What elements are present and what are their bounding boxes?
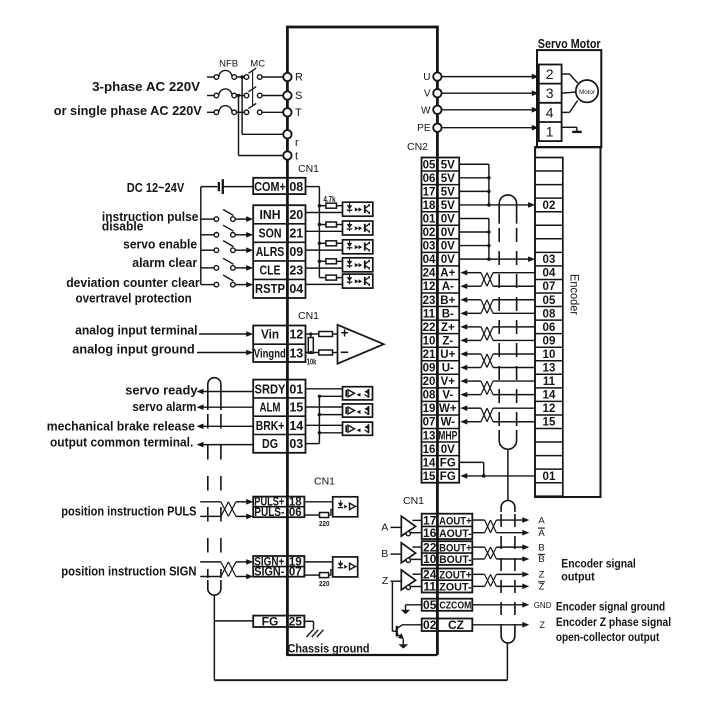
svg-text:12: 12 xyxy=(423,281,436,293)
svg-text:4: 4 xyxy=(546,104,554,120)
svg-text:B-: B- xyxy=(442,308,454,320)
svg-text:r: r xyxy=(295,137,299,149)
svg-text:09: 09 xyxy=(289,245,303,259)
svg-text:SIGN-: SIGN- xyxy=(254,567,284,579)
svg-text:Z-: Z- xyxy=(442,335,453,347)
svg-text:0V: 0V xyxy=(441,227,455,239)
svg-text:output common terminal.: output common terminal. xyxy=(50,435,193,450)
svg-text:15: 15 xyxy=(289,401,303,415)
svg-text:Encoder signal: Encoder signal xyxy=(561,558,636,570)
svg-text:11: 11 xyxy=(423,308,436,320)
svg-text:CN1: CN1 xyxy=(314,476,335,488)
svg-text:servo enable: servo enable xyxy=(123,237,197,252)
svg-text:24: 24 xyxy=(423,268,436,280)
svg-text:ZOUT+: ZOUT+ xyxy=(439,570,472,582)
svg-text:FG: FG xyxy=(440,471,456,483)
svg-text:5V: 5V xyxy=(441,159,455,171)
svg-text:12: 12 xyxy=(543,403,556,415)
svg-text:5V: 5V xyxy=(441,200,455,212)
svg-text:09: 09 xyxy=(423,363,436,375)
svg-text:CN1: CN1 xyxy=(403,495,424,507)
svg-text:220: 220 xyxy=(319,579,330,588)
svg-text:B: B xyxy=(381,548,388,560)
svg-text:06: 06 xyxy=(423,173,436,185)
svg-text:05: 05 xyxy=(543,295,556,307)
svg-text:NFB: NFB xyxy=(219,59,238,70)
svg-text:Z: Z xyxy=(539,582,545,593)
svg-text:01: 01 xyxy=(423,213,436,225)
svg-text:CLE: CLE xyxy=(260,264,281,278)
svg-text:FG: FG xyxy=(262,615,279,629)
svg-text:16: 16 xyxy=(423,444,436,456)
svg-text:U-: U- xyxy=(442,363,454,375)
svg-text:15: 15 xyxy=(543,417,556,429)
svg-text:B: B xyxy=(538,554,544,565)
svg-text:ALM: ALM xyxy=(260,401,281,415)
svg-text:03: 03 xyxy=(289,437,303,451)
svg-text:CN1: CN1 xyxy=(298,310,319,322)
svg-text:0V: 0V xyxy=(441,213,455,225)
svg-text:alarm clear: alarm clear xyxy=(132,255,197,270)
svg-text:COM+: COM+ xyxy=(254,180,286,194)
svg-text:25: 25 xyxy=(289,615,303,629)
svg-text:PULS-: PULS- xyxy=(254,507,284,519)
svg-text:position instruction SIGN: position instruction SIGN xyxy=(61,564,196,579)
svg-text:03: 03 xyxy=(423,241,436,253)
svg-text:01: 01 xyxy=(543,471,556,483)
svg-text:17: 17 xyxy=(423,186,436,198)
svg-text:Z: Z xyxy=(540,620,546,630)
svg-text:AOUT-: AOUT- xyxy=(439,528,472,540)
svg-text:23: 23 xyxy=(423,295,436,307)
svg-text:08: 08 xyxy=(289,180,303,194)
svg-text:Vin: Vin xyxy=(261,328,279,342)
svg-text:20: 20 xyxy=(423,376,436,388)
svg-text:W+: W+ xyxy=(439,403,457,415)
svg-text:5V: 5V xyxy=(441,173,455,185)
svg-text:A: A xyxy=(538,515,545,526)
svg-text:19: 19 xyxy=(423,403,436,415)
svg-text:07: 07 xyxy=(423,417,436,429)
svg-text:Encoder Z phase signal: Encoder Z phase signal xyxy=(556,617,671,629)
svg-text:INH: INH xyxy=(260,208,281,222)
svg-text:W: W xyxy=(421,105,431,116)
svg-text:10: 10 xyxy=(543,349,556,361)
svg-text:A+: A+ xyxy=(440,268,455,280)
svg-text:t: t xyxy=(295,151,298,163)
svg-text:analog input terminal: analog input terminal xyxy=(75,323,197,338)
svg-text:21: 21 xyxy=(289,227,303,241)
svg-text:servo alarm: servo alarm xyxy=(132,399,196,414)
svg-text:SON: SON xyxy=(259,227,282,241)
svg-text:AOUT+: AOUT+ xyxy=(439,515,472,527)
svg-text:09: 09 xyxy=(543,335,556,347)
svg-text:06: 06 xyxy=(289,507,302,519)
svg-text:20: 20 xyxy=(289,208,303,222)
svg-text:07: 07 xyxy=(543,281,556,293)
svg-text:05: 05 xyxy=(423,598,437,612)
svg-text:02: 02 xyxy=(423,618,437,632)
svg-text:3-phase AC 220V: 3-phase AC 220V xyxy=(92,79,200,94)
svg-text:S: S xyxy=(295,90,302,102)
svg-text:10k: 10k xyxy=(307,357,317,366)
svg-text:02: 02 xyxy=(543,200,556,212)
svg-text:Z+: Z+ xyxy=(441,322,455,334)
svg-text:21: 21 xyxy=(423,349,436,361)
svg-text:ZOUT-: ZOUT- xyxy=(439,582,472,594)
svg-text:04: 04 xyxy=(423,254,436,266)
svg-text:GND: GND xyxy=(534,601,552,610)
svg-text:3: 3 xyxy=(546,85,554,101)
svg-text:Encoder signal ground: Encoder signal ground xyxy=(556,602,665,614)
svg-text:A: A xyxy=(538,528,545,539)
svg-text:16: 16 xyxy=(423,526,437,540)
svg-text:servo ready: servo ready xyxy=(125,382,198,397)
svg-text:220: 220 xyxy=(319,519,330,528)
svg-text:deviation counter clear: deviation counter clear xyxy=(66,275,200,290)
svg-text:A-: A- xyxy=(442,281,454,293)
svg-text:MC: MC xyxy=(250,59,265,70)
svg-text:13: 13 xyxy=(289,347,303,361)
svg-text:open-collector output: open-collector output xyxy=(556,632,660,644)
svg-text:CZCOM: CZCOM xyxy=(439,600,471,612)
svg-text:overtravel protection: overtravel protection xyxy=(76,290,192,305)
svg-text:mechanical brake release: mechanical brake release xyxy=(47,418,195,433)
svg-text:14: 14 xyxy=(543,390,556,402)
svg-text:4.7k: 4.7k xyxy=(324,195,336,204)
svg-text:RSTP: RSTP xyxy=(255,282,285,296)
svg-text:0V: 0V xyxy=(441,241,455,253)
svg-text:analog input ground: analog input ground xyxy=(72,342,194,357)
svg-text:R: R xyxy=(295,72,303,84)
svg-text:CZ: CZ xyxy=(448,618,464,632)
svg-text:MHP: MHP xyxy=(438,430,457,442)
svg-text:13: 13 xyxy=(543,363,556,375)
svg-text:output: output xyxy=(561,572,595,584)
svg-text:01: 01 xyxy=(289,382,303,396)
svg-text:11: 11 xyxy=(423,580,436,594)
svg-text:5V: 5V xyxy=(441,186,455,198)
svg-text:1: 1 xyxy=(546,124,554,140)
svg-text:disable: disable xyxy=(102,218,143,233)
svg-text:Chassis ground: Chassis ground xyxy=(288,642,370,656)
svg-text:07: 07 xyxy=(289,567,302,579)
svg-text:14: 14 xyxy=(423,457,436,469)
svg-text:or single phase AC 220V: or single phase AC 220V xyxy=(54,103,202,118)
svg-text:10: 10 xyxy=(423,335,436,347)
svg-text:V-: V- xyxy=(442,390,453,402)
svg-text:CN2: CN2 xyxy=(407,141,428,153)
svg-text:PE: PE xyxy=(417,123,431,134)
svg-text:2: 2 xyxy=(546,66,554,82)
svg-text:SRDY: SRDY xyxy=(255,382,287,396)
svg-text:05: 05 xyxy=(423,159,436,171)
svg-text:Motor: Motor xyxy=(579,89,596,96)
svg-text:U: U xyxy=(423,72,430,83)
svg-text:BRK+: BRK+ xyxy=(256,419,285,433)
svg-text:V: V xyxy=(424,89,431,100)
svg-text:W-: W- xyxy=(441,417,456,429)
svg-text:14: 14 xyxy=(289,419,303,433)
svg-text:Servo Motor: Servo Motor xyxy=(538,37,601,51)
svg-text:B+: B+ xyxy=(440,295,455,307)
svg-text:15: 15 xyxy=(423,471,436,483)
svg-text:18: 18 xyxy=(423,200,436,212)
svg-text:11: 11 xyxy=(543,376,556,388)
svg-text:B: B xyxy=(538,542,544,553)
svg-text:A: A xyxy=(381,521,388,533)
svg-text:ALRS: ALRS xyxy=(256,245,285,259)
svg-text:12: 12 xyxy=(289,328,303,342)
svg-text:T: T xyxy=(295,107,302,119)
svg-text:U+: U+ xyxy=(440,349,455,361)
svg-text:08: 08 xyxy=(543,308,556,320)
svg-text:08: 08 xyxy=(423,390,436,402)
svg-text:22: 22 xyxy=(423,322,436,334)
svg-text:23: 23 xyxy=(289,264,303,278)
svg-text:04: 04 xyxy=(289,282,303,296)
svg-text:0V: 0V xyxy=(441,254,455,266)
svg-text:0V: 0V xyxy=(441,444,455,456)
svg-text:06: 06 xyxy=(543,322,556,334)
svg-text:V+: V+ xyxy=(441,376,456,388)
svg-text:Encoder: Encoder xyxy=(568,274,580,315)
svg-text:+: + xyxy=(341,325,349,340)
svg-text:DC 12~24V: DC 12~24V xyxy=(127,180,185,195)
svg-text:13: 13 xyxy=(423,430,436,442)
svg-text:04: 04 xyxy=(543,268,556,280)
svg-text:Z: Z xyxy=(382,575,389,587)
svg-text:Vingnd: Vingnd xyxy=(254,349,286,361)
svg-text:BOUT+: BOUT+ xyxy=(439,542,472,554)
svg-text:DG: DG xyxy=(262,437,278,451)
svg-text:03: 03 xyxy=(543,254,556,266)
svg-text:Z: Z xyxy=(539,570,545,581)
svg-text:CN1: CN1 xyxy=(298,163,319,175)
svg-text:02: 02 xyxy=(423,227,436,239)
svg-text:FG: FG xyxy=(440,457,456,469)
svg-text:position instruction PULS: position instruction PULS xyxy=(61,504,196,519)
svg-text:10: 10 xyxy=(423,552,437,566)
svg-text:BOUT-: BOUT- xyxy=(439,554,472,566)
